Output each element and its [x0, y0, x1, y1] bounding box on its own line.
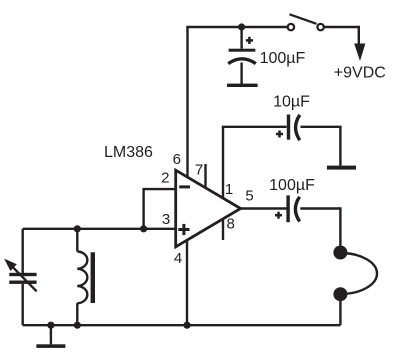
junction dot ground tap	[47, 322, 54, 329]
capacitor C1 100uF positive lead	[240, 27, 242, 49]
wire switch to supply arrow	[324, 27, 359, 45]
ground C2	[327, 166, 356, 170]
variable capacitor VC1	[4, 229, 36, 325]
wire pin 6 to V+	[186, 27, 188, 179]
wire pin 2 feedback loop	[144, 189, 176, 229]
svg-text:1: 1	[225, 181, 233, 198]
inductor L1	[77, 229, 87, 325]
wire output pin 5	[239, 207, 287, 209]
bottom rail	[23, 324, 341, 326]
svg-text:2: 2	[161, 170, 169, 187]
terminal dot top	[333, 246, 347, 260]
op-amp U1 LM386	[176, 170, 241, 247]
svg-text:+9VDC: +9VDC	[334, 64, 386, 81]
wire pin 1 riser	[222, 127, 224, 198]
svg-text:7: 7	[195, 161, 203, 178]
svg-text:6: 6	[173, 151, 181, 168]
pin 7 stub	[204, 164, 206, 188]
capacitor C1 plates	[228, 49, 256, 64]
wire input node to pin 3	[23, 228, 176, 230]
junction dot L1 bottom	[74, 322, 81, 329]
ground main	[36, 325, 65, 348]
wire C1 to ground	[240, 63, 242, 85]
svg-text:LM386: LM386	[104, 144, 153, 161]
capacitor C2 10uF	[276, 115, 300, 141]
svg-text:8: 8	[227, 215, 235, 232]
wire pin 4 to ground rail	[186, 241, 188, 326]
pin 8 stub	[222, 220, 224, 241]
svg-text:4: 4	[174, 250, 182, 267]
plus input symbol	[178, 224, 189, 235]
junction dot pin 4	[183, 322, 190, 329]
supply arrow	[354, 44, 365, 62]
earphone arc	[340, 253, 377, 294]
plus sign C1	[246, 37, 253, 44]
junction dot V+ node	[238, 23, 245, 30]
svg-text:10µF: 10µF	[273, 93, 310, 110]
capacitor C3 100uF	[275, 195, 300, 222]
svg-text:5: 5	[245, 187, 253, 204]
svg-text:3: 3	[162, 211, 170, 228]
core bar L1	[91, 252, 95, 303]
switch S1	[288, 14, 324, 30]
junction dot tank top	[74, 225, 81, 232]
wire C3 to earphone	[300, 209, 340, 247]
wire C2 to ground	[301, 127, 341, 166]
wire C2 left segment	[222, 126, 287, 128]
svg-text:100µF: 100µF	[260, 50, 306, 67]
ground C1	[227, 84, 258, 87]
svg-text:100µF: 100µF	[269, 177, 315, 194]
wire earphone to ground rail	[339, 294, 341, 325]
minus input symbol	[179, 185, 190, 188]
junction dot pins 2-3 tie	[140, 225, 147, 232]
wire top rail	[186, 26, 288, 28]
terminal dot bottom	[333, 287, 347, 301]
